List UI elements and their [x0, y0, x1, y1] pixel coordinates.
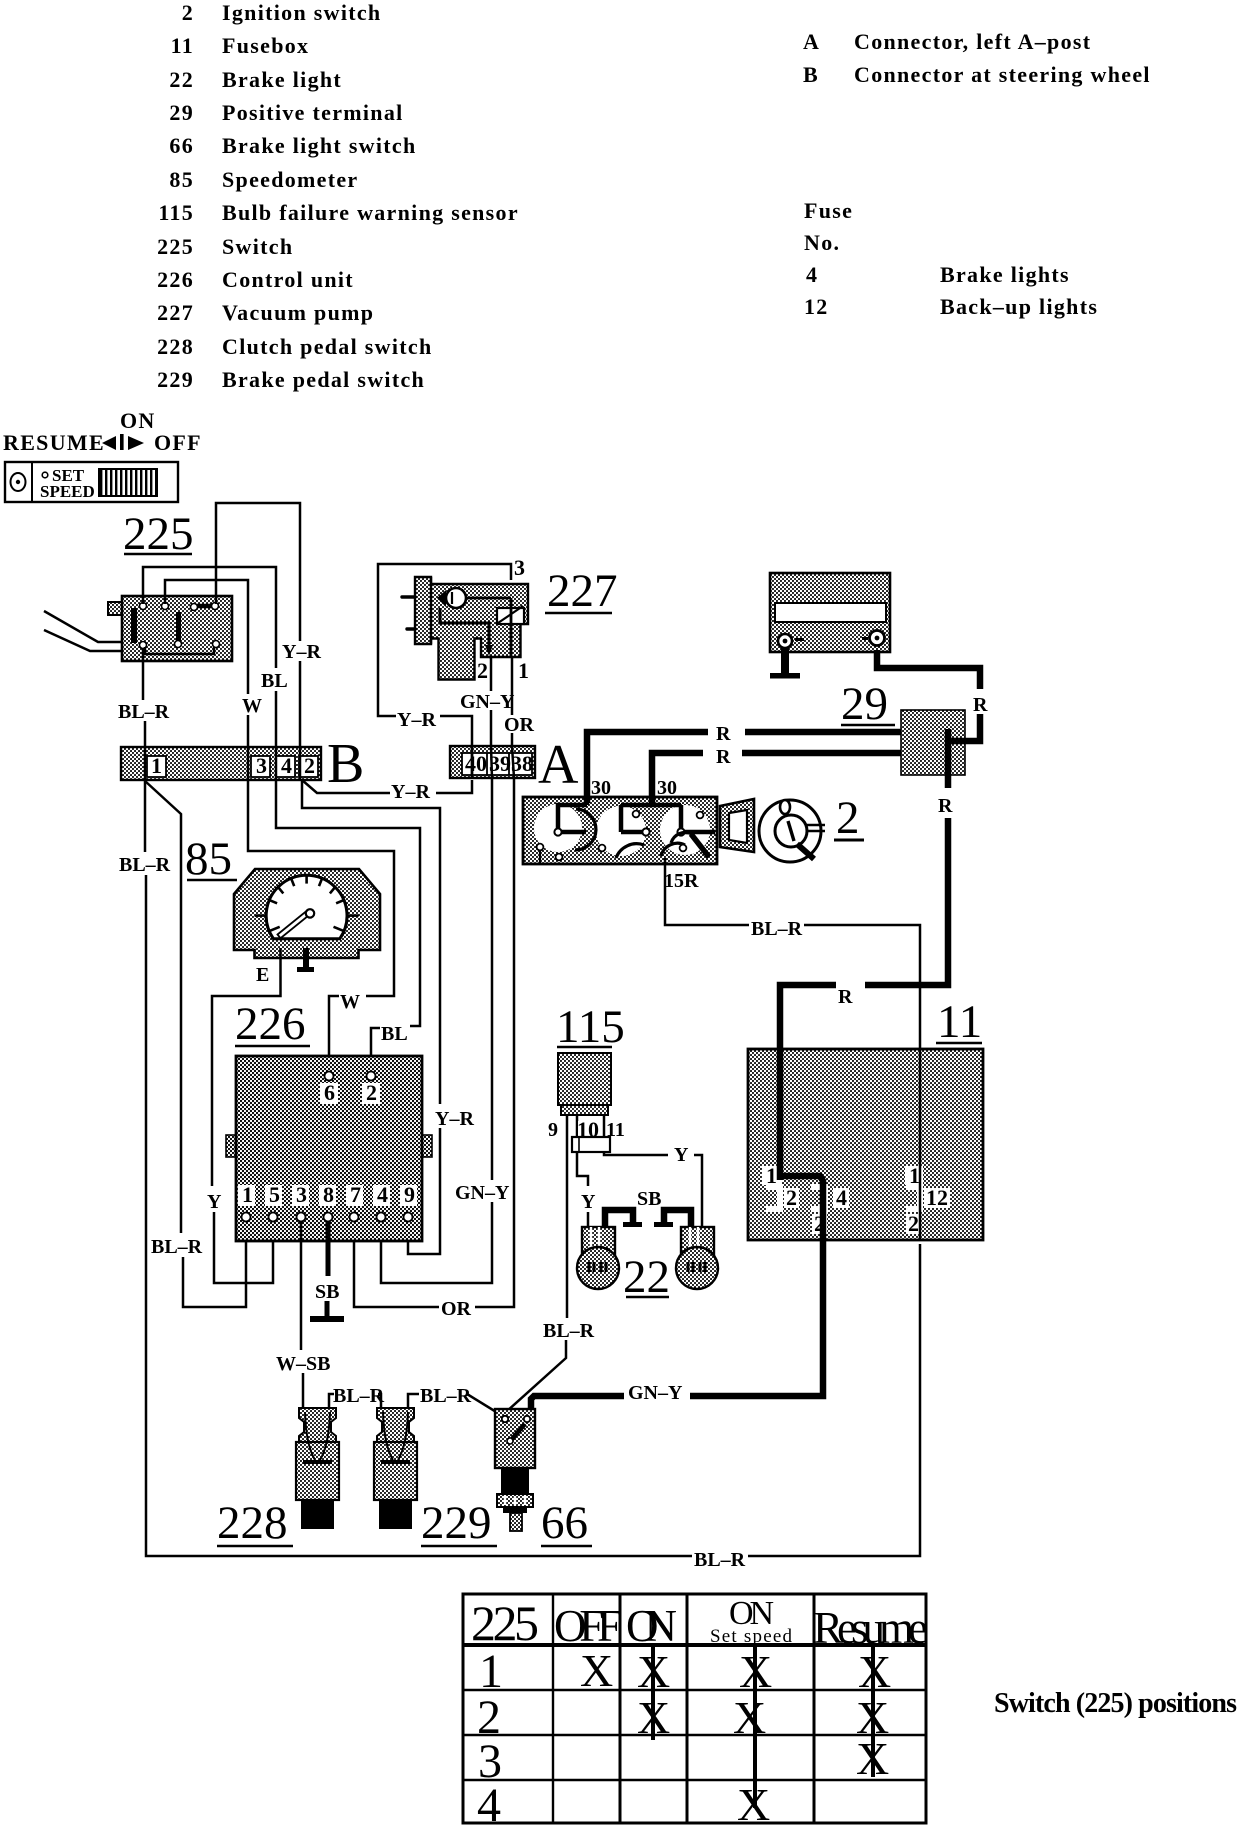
svg-text:2: 2: [908, 1211, 919, 1236]
svg-text:1: 1: [151, 753, 162, 778]
wire B4 BL to 226 pin 2: [276, 780, 420, 1026]
svg-text:B: B: [803, 62, 819, 87]
wire B1 diagonal branch: [145, 781, 181, 1233]
svg-text:30: 30: [657, 777, 677, 799]
label 227: [545, 565, 618, 617]
wire 227 pin1 OR to A38: [511, 657, 514, 715]
label 66: [541, 1497, 592, 1549]
wire R junction down: [945, 729, 952, 788]
svg-text:Back–up lights: Back–up lights: [940, 294, 1098, 319]
svg-text:GN–Y: GN–Y: [460, 691, 515, 713]
svg-text:1: 1: [242, 1182, 253, 1207]
wire B3 W to 226 pin 6: [248, 780, 394, 996]
wire 226 pin8 SB ground: [326, 1222, 331, 1276]
label 115: [556, 1001, 625, 1053]
svg-text:2: 2: [786, 1185, 797, 1210]
svg-text:Brake pedal switch: Brake pedal switch: [222, 367, 425, 392]
svg-text:A: A: [538, 734, 579, 796]
226 bottom pins: [238, 1182, 417, 1222]
svg-text:R: R: [716, 746, 731, 768]
svg-text:GN–Y: GN–Y: [455, 1182, 510, 1204]
svg-text:OR: OR: [441, 1298, 472, 1320]
svg-text:11: 11: [171, 33, 194, 58]
115 pin 9 wire long BL-R: [566, 1115, 569, 1318]
svg-text:85: 85: [185, 833, 232, 885]
svg-text:BL–R: BL–R: [420, 1385, 472, 1407]
vacuum pump 227: [402, 577, 528, 680]
label 85: [185, 833, 237, 885]
svg-text:BL–R: BL–R: [118, 701, 170, 723]
svg-text:22: 22: [623, 1251, 670, 1303]
label 11: [936, 996, 982, 1048]
wire 225 pin to BL (B pin 4): [143, 567, 276, 668]
svg-text:6: 6: [324, 1080, 335, 1105]
115 pin10 wire: [576, 1115, 579, 1137]
wire through A pin38: [512, 746, 514, 778]
svg-text:BL–R: BL–R: [694, 1549, 746, 1571]
svg-text:22: 22: [169, 67, 194, 92]
svg-text:225: 225: [471, 1595, 539, 1651]
115 pin11 wire: [603, 1115, 606, 1137]
brake light switch 66: [495, 1409, 535, 1531]
wire 225 pin to W (B pin 3): [165, 580, 248, 694]
SB bracket right: [664, 1210, 691, 1227]
wire 30a thick R: [587, 732, 708, 803]
table X marks: [580, 1645, 891, 1826]
svg-text:W: W: [242, 695, 262, 717]
svg-text:RESUME: RESUME: [3, 430, 105, 455]
svg-text:W–SB: W–SB: [276, 1353, 330, 1375]
svg-text:Set speed: Set speed: [710, 1626, 793, 1647]
svg-text:Fusebox: Fusebox: [222, 33, 309, 58]
terminal block 29: [901, 710, 965, 775]
connector A: [450, 734, 579, 796]
svg-text:30: 30: [591, 777, 611, 799]
svg-text:Connector, left A–post: Connector, left A–post: [854, 29, 1091, 54]
wire 229-66 BL-R: [408, 1394, 419, 1408]
svg-text:4: 4: [281, 753, 292, 778]
svg-text:SPEED: SPEED: [40, 482, 95, 501]
svg-text:229: 229: [421, 1497, 492, 1549]
svg-text:GN–Y: GN–Y: [628, 1382, 683, 1404]
svg-text:BL–R: BL–R: [751, 918, 803, 940]
svg-text:2: 2: [304, 753, 315, 778]
control unit 226: [226, 1056, 432, 1241]
svg-text:R: R: [716, 723, 731, 745]
svg-text:12: 12: [926, 1185, 948, 1210]
svg-text:SB: SB: [315, 1281, 339, 1303]
battery 29: [770, 573, 890, 652]
brake pedal switch 229: [374, 1408, 417, 1529]
svg-text:ON: ON: [120, 408, 156, 433]
svg-text:BL–R: BL–R: [119, 854, 171, 876]
wire R fuse out thick: [690, 1176, 823, 1396]
ignition switch 2: [523, 797, 717, 864]
svg-text:SB: SB: [637, 1188, 661, 1210]
svg-text:11: 11: [937, 996, 982, 1048]
svg-text:OFF: OFF: [554, 1601, 622, 1651]
svg-text:225: 225: [123, 508, 194, 560]
svg-text:66: 66: [541, 1497, 588, 1549]
wire stalk: [44, 630, 122, 651]
svg-text:X: X: [580, 1645, 613, 1696]
wire 15R BL-R: [665, 858, 749, 925]
speedometer 85: [234, 869, 380, 958]
svg-text:W: W: [340, 991, 360, 1013]
svg-text:9: 9: [404, 1182, 415, 1207]
wire 228-229 BL-R: [329, 1394, 334, 1408]
label 225: [123, 508, 194, 560]
wire through B pin2: [299, 747, 302, 780]
svg-text:85: 85: [169, 167, 194, 192]
svg-text:Bulb failure warning sensor: Bulb failure warning sensor: [222, 200, 519, 225]
svg-text:7: 7: [350, 1182, 361, 1207]
svg-text:BL: BL: [381, 1023, 408, 1045]
svg-text:115: 115: [556, 1001, 625, 1053]
svg-text:OR: OR: [504, 714, 535, 736]
svg-text:29: 29: [169, 100, 194, 125]
svg-text:Ignition switch: Ignition switch: [222, 0, 381, 25]
svg-text:12: 12: [804, 294, 829, 319]
label 22: [623, 1251, 670, 1303]
ignition trapezoid: [720, 799, 754, 852]
ignition key: [759, 800, 825, 862]
svg-text:227: 227: [547, 565, 618, 617]
connector B: [121, 733, 364, 795]
svg-text:Switch: Switch: [222, 234, 293, 259]
svg-text:Positive terminal: Positive terminal: [222, 100, 404, 125]
svg-text:ON: ON: [626, 1601, 677, 1651]
wire 226 pin3 W-SB to 228: [300, 1222, 303, 1350]
svg-text:3: 3: [296, 1182, 307, 1207]
svg-text:2: 2: [366, 1080, 377, 1105]
svg-text:228: 228: [217, 1497, 288, 1549]
wire 225 pin to Y-R (B pin 2): [216, 503, 300, 641]
label 10: [578, 1121, 601, 1140]
wire Y-R upper A40 to 227 pin3: [440, 716, 472, 746]
sensor 115: [558, 1053, 611, 1115]
svg-text:Vacuum pump: Vacuum pump: [222, 300, 374, 325]
label 226: [235, 998, 310, 1050]
switch 225 stalk icon: [3, 408, 202, 502]
wire through B pin4: [275, 747, 278, 780]
svg-text:E: E: [256, 964, 269, 986]
svg-text:4: 4: [477, 1779, 501, 1826]
table: [463, 1594, 928, 1826]
svg-text:3: 3: [256, 753, 267, 778]
svg-text:Speedometer: Speedometer: [222, 167, 358, 192]
svg-text:Y: Y: [207, 1191, 222, 1213]
battery ground: [781, 648, 789, 674]
svg-text:227: 227: [157, 300, 194, 325]
svg-text:15R: 15R: [664, 870, 699, 892]
label 29: [841, 678, 895, 730]
wire through A pin40: [471, 746, 474, 778]
speedo ground: [303, 948, 309, 968]
svg-text:229: 229: [157, 367, 194, 392]
svg-text:Switch (225) positions: Switch (225) positions: [994, 1688, 1237, 1719]
svg-text:4: 4: [836, 1185, 847, 1210]
wire 227 pin2 GN-Y to A39: [489, 657, 491, 691]
svg-text:B: B: [327, 733, 364, 795]
svg-text:BL–R: BL–R: [151, 1236, 203, 1258]
wire A40 through strip: [471, 746, 474, 778]
label 228: [217, 1497, 293, 1549]
label 229: [421, 1497, 497, 1549]
svg-text:BL–R: BL–R: [543, 1320, 595, 1342]
svg-text:Y–R: Y–R: [435, 1108, 474, 1130]
wire B2 down to 226 pin 9: [302, 780, 440, 1104]
svg-text:OFF: OFF: [154, 430, 202, 455]
svg-text:228: 228: [157, 334, 194, 359]
table connector lines: [651, 1647, 655, 1740]
svg-text:4: 4: [377, 1182, 388, 1207]
svg-text:BL–R: BL–R: [333, 1385, 385, 1407]
wire through fuse 12: [919, 1049, 922, 1240]
wire B1 BL-R down left frame: [144, 780, 147, 852]
svg-text:226: 226: [235, 998, 306, 1050]
svg-text:9: 9: [548, 1119, 558, 1141]
wire pin11 to right bulb Y: [604, 1152, 668, 1155]
svg-text:Clutch pedal switch: Clutch pedal switch: [222, 334, 433, 359]
wire stalk: [44, 611, 122, 642]
svg-text:Brake light: Brake light: [222, 67, 342, 92]
svg-text:5: 5: [269, 1182, 280, 1207]
wire B2 to A40 Y-R: [302, 780, 390, 793]
svg-text:Y: Y: [581, 1191, 596, 1213]
svg-text:Y: Y: [674, 1144, 689, 1166]
svg-text:Y–R: Y–R: [397, 709, 436, 731]
brake light bulb left: [577, 1227, 619, 1289]
wire E to 226 pin 5 Y: [212, 948, 281, 1186]
svg-text:Y–R: Y–R: [282, 641, 321, 663]
fusebox 11: [748, 1049, 983, 1240]
svg-text:Connector at steering wheel: Connector at steering wheel: [854, 62, 1151, 87]
svg-text:2: 2: [836, 792, 860, 844]
svg-text:8: 8: [323, 1182, 334, 1207]
clutch pedal switch 228: [296, 1408, 339, 1529]
svg-text:R: R: [973, 694, 988, 716]
switch 225 component: [108, 596, 232, 661]
svg-text:66: 66: [169, 133, 194, 158]
wire through A pin39: [491, 746, 492, 778]
wire 30b thick R: [652, 753, 703, 803]
legend left column: [157, 0, 519, 392]
svg-text:R: R: [938, 795, 953, 817]
svg-text:3: 3: [514, 555, 525, 580]
svg-text:X: X: [733, 1692, 766, 1743]
svg-text:40: 40: [465, 751, 487, 776]
svg-text:225: 225: [157, 234, 194, 259]
brake light bulb right: [676, 1227, 718, 1289]
wire 225 bottom pin to B pin 1: [142, 648, 145, 700]
115 fuse white box: [572, 1137, 610, 1152]
svg-text:No.: No.: [804, 230, 840, 255]
svg-text:226: 226: [157, 267, 194, 292]
svg-text:2: 2: [477, 658, 488, 683]
svg-text:115: 115: [158, 200, 194, 225]
legend right column: [803, 29, 1151, 319]
svg-text:R: R: [838, 986, 853, 1008]
svg-text:A: A: [803, 29, 820, 54]
svg-text:1: 1: [518, 658, 529, 683]
wire battery + R: [877, 650, 980, 689]
wire through B pin1: [144, 747, 147, 780]
svg-text:Y–R: Y–R: [391, 781, 430, 803]
wire pin10 to left bulb Y: [577, 1152, 588, 1186]
svg-text:29: 29: [841, 678, 888, 730]
svg-text:2: 2: [182, 0, 194, 25]
svg-text:Control unit: Control unit: [222, 267, 354, 292]
svg-text:Fuse: Fuse: [804, 198, 853, 223]
svg-text:BL: BL: [261, 670, 288, 692]
svg-text:4: 4: [806, 262, 818, 287]
label 2: [834, 792, 864, 844]
SB bracket left: [605, 1210, 633, 1227]
svg-text:Brake lights: Brake lights: [940, 262, 1070, 287]
svg-text:Brake light switch: Brake light switch: [222, 133, 417, 158]
wire through B pin3: [247, 747, 250, 780]
